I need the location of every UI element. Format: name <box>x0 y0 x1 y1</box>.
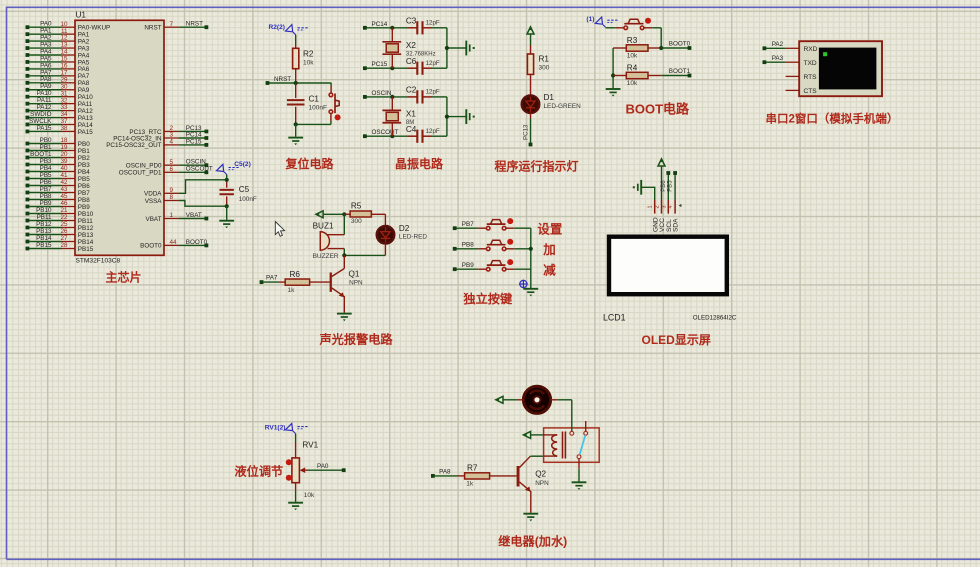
svg-text:26: 26 <box>60 228 68 235</box>
svg-text:PA14: PA14 <box>78 122 93 129</box>
svg-text:15: 15 <box>60 56 68 63</box>
label 继电器(加水) <box>498 534 567 549</box>
svg-text:1k: 1k <box>288 287 296 294</box>
svg-text:STM32F103C8: STM32F103C8 <box>76 258 121 265</box>
svg-text:PA7: PA7 <box>40 69 52 76</box>
svg-text:LED-RED: LED-RED <box>399 233 427 240</box>
svg-text:OSCIN_PD0: OSCIN_PD0 <box>126 163 162 170</box>
svg-text:32: 32 <box>60 97 68 104</box>
svg-text:PB15: PB15 <box>36 242 52 249</box>
wire reset bottom <box>294 122 331 126</box>
svg-text:PA11: PA11 <box>78 101 93 108</box>
svg-text:39: 39 <box>60 158 68 165</box>
svg-text:R6: R6 <box>290 270 301 279</box>
U1 pin 33 PA12 / wire net PA12 <box>26 104 94 115</box>
svg-text:LED-GREEN: LED-GREEN <box>544 103 582 110</box>
U1 pin 37 PA14 / wire net SWCLK <box>26 118 94 129</box>
wire right bus X1 <box>445 97 466 136</box>
svg-text:42: 42 <box>60 179 68 186</box>
svg-text:PA10: PA10 <box>37 90 52 97</box>
svg-text:PB0: PB0 <box>40 137 52 144</box>
label 程序运行指示灯 <box>495 159 579 174</box>
svg-text:BOOT0: BOOT0 <box>186 239 208 246</box>
svg-text:LCD1: LCD1 <box>603 313 626 323</box>
push button PB7 key <box>478 218 531 230</box>
svg-text:PB1: PB1 <box>40 144 52 151</box>
U1 pin 7 NRST / wire net NRST <box>144 21 208 32</box>
power symbol motor <box>496 396 517 403</box>
LED D2 LED-RED <box>377 224 428 244</box>
svg-text:R1: R1 <box>539 55 550 64</box>
svg-text:X1: X1 <box>406 109 416 118</box>
svg-text:NRST: NRST <box>144 25 161 32</box>
svg-text:3: 3 <box>661 205 667 208</box>
svg-text:R7: R7 <box>467 463 478 472</box>
svg-text:VBAT: VBAT <box>146 216 162 223</box>
svg-text:PA3: PA3 <box>772 55 784 62</box>
svg-text:串口2窗口（模拟手机端）: 串口2窗口（模拟手机端） <box>766 111 899 125</box>
wire net OSCOUT <box>363 129 408 138</box>
label 液位调节 <box>235 464 284 479</box>
svg-text:PC15: PC15 <box>372 61 388 68</box>
svg-text:RTS: RTS <box>804 74 818 81</box>
U1 pin 42 PB6 / wire net PB6 <box>26 179 91 190</box>
svg-text:5: 5 <box>170 159 174 166</box>
U1 pin 29 PA8 / wire net PA8 <box>26 76 90 87</box>
svg-text:38: 38 <box>60 125 68 132</box>
svg-text:4: 4 <box>668 205 674 208</box>
wire Q2 collector to relay coil <box>530 455 543 457</box>
svg-text:PA12: PA12 <box>37 104 52 111</box>
svg-text:PA1: PA1 <box>40 28 52 35</box>
U1 pin 6 OSCOUT_PD1 / wire net OSCOUT <box>119 166 213 177</box>
capacitor C6 12pF <box>406 57 447 75</box>
svg-text:PA0: PA0 <box>317 463 329 470</box>
svg-text:RXD: RXD <box>804 46 818 53</box>
svg-text:PA2: PA2 <box>772 41 784 48</box>
U1 pin 30 PA9 / wire net PA9 <box>26 83 90 94</box>
svg-text:32.768KHz: 32.768KHz <box>406 51 436 57</box>
wire net PC15 <box>363 61 408 70</box>
svg-text:4: 4 <box>170 139 174 146</box>
svg-text:PA9: PA9 <box>40 83 52 90</box>
svg-text:44: 44 <box>170 239 178 246</box>
svg-text:PB9: PB9 <box>40 200 52 207</box>
U1 pin 41 PB5 / wire net PB5 <box>26 172 91 183</box>
svg-text:SDA: SDA <box>673 218 680 232</box>
svg-text:31: 31 <box>60 90 68 97</box>
svg-text:PA11: PA11 <box>37 97 52 104</box>
label 串口2窗口（模拟手机端） <box>766 111 899 125</box>
label 设置 <box>537 222 563 237</box>
svg-text:BUZZER: BUZZER <box>313 253 339 260</box>
label 声光报警电路 <box>319 332 394 347</box>
svg-text:33: 33 <box>60 104 68 111</box>
wire net PC14 <box>363 21 408 30</box>
svg-text:12pF: 12pF <box>426 60 440 67</box>
svg-text:30: 30 <box>60 83 68 90</box>
svg-text:14: 14 <box>60 49 68 56</box>
svg-text:8M: 8M <box>406 120 414 126</box>
svg-text:Q1: Q1 <box>349 269 360 278</box>
svg-text:PA12: PA12 <box>78 108 93 115</box>
ground keys <box>523 289 538 297</box>
wire net PB9 <box>453 262 479 271</box>
svg-text:21: 21 <box>60 207 68 214</box>
U1 pin 3 PC14-OSC32_IN / wire net PC14 <box>113 131 208 142</box>
svg-text:X2: X2 <box>406 41 416 50</box>
svg-text:28: 28 <box>60 242 68 249</box>
svg-text:PA7: PA7 <box>78 73 90 80</box>
svg-text:12pF: 12pF <box>426 89 440 96</box>
svg-text:PA8: PA8 <box>78 80 90 87</box>
wire right bus X2 <box>445 28 466 68</box>
ground Q2 emitter <box>523 514 538 522</box>
svg-text:PA3: PA3 <box>40 41 52 48</box>
svg-text:PC15: PC15 <box>186 138 202 145</box>
svg-text:100nF: 100nF <box>239 196 257 203</box>
svg-text:37: 37 <box>60 118 68 125</box>
svg-text:VSSA: VSSA <box>145 198 163 205</box>
svg-text:17: 17 <box>60 69 68 76</box>
svg-text:25: 25 <box>60 221 68 228</box>
svg-text:11: 11 <box>61 28 68 35</box>
svg-text:减: 减 <box>543 263 556 278</box>
svg-text:300: 300 <box>539 65 550 72</box>
U1 pin 4 PC15-OSC32_OUT / wire net PC15 <box>106 138 208 149</box>
svg-text:CTS: CTS <box>804 88 818 95</box>
svg-text:复位电路: 复位电路 <box>285 156 335 171</box>
svg-text:PB6: PB6 <box>661 180 667 192</box>
push button PB8 key <box>478 239 531 251</box>
svg-text:PB4: PB4 <box>40 165 52 172</box>
capacitor C3 12pF <box>406 16 447 34</box>
svg-text:R2: R2 <box>303 49 314 58</box>
buzzer BUZ1 <box>313 214 345 260</box>
svg-text:PB15: PB15 <box>78 246 94 253</box>
svg-text:10k: 10k <box>627 53 638 60</box>
svg-text:PA3: PA3 <box>78 45 90 52</box>
voltage probe R2(2) <box>269 24 310 35</box>
capacitor C4 12pF <box>406 125 447 143</box>
svg-text:12pF: 12pF <box>426 19 440 26</box>
U1 pin 27 PB14 / wire net PB14 <box>26 235 94 246</box>
wire net PC13 below D1 <box>522 113 532 146</box>
svg-text:C5(2): C5(2) <box>234 161 251 168</box>
svg-text:PA0-WKUP: PA0-WKUP <box>78 25 110 32</box>
voltage probe RV1(2) <box>265 423 309 433</box>
svg-text:PA1: PA1 <box>78 31 90 38</box>
label BOOT电路 <box>626 102 691 117</box>
svg-text:43: 43 <box>60 186 68 193</box>
U1 pin 2 PC13_RTC / wire net PC13 <box>129 125 208 136</box>
U1 pin 12 PA2 / wire net PA2 <box>26 35 90 46</box>
svg-text:SWDIO: SWDIO <box>30 111 51 118</box>
svg-text:PA5: PA5 <box>40 55 52 62</box>
svg-text:PB3: PB3 <box>40 158 52 165</box>
svg-text:R2(2): R2(2) <box>269 24 286 31</box>
wire R3-R4 left bus <box>611 48 615 88</box>
svg-text:PB7: PB7 <box>40 186 52 193</box>
label 加 <box>542 242 556 257</box>
power symbol relay coil <box>523 431 543 438</box>
transistor Q1 NPN <box>330 255 363 312</box>
transistor Q2 NPN <box>517 456 549 513</box>
capacitor C5 100nF <box>220 178 257 209</box>
svg-text:独立按键: 独立按键 <box>462 291 513 306</box>
svg-text:BOOT0: BOOT0 <box>669 41 691 48</box>
U1 pin 39 PB3 / wire net PB3 <box>26 158 91 169</box>
svg-text:NPN: NPN <box>349 279 363 286</box>
U1 pin 18 PB0 / wire net PB0 <box>26 137 91 148</box>
svg-text:晶振电路: 晶振电路 <box>395 156 444 171</box>
svg-text:13: 13 <box>60 42 68 49</box>
svg-text:OLED显示屏: OLED显示屏 <box>642 333 711 347</box>
svg-text:D1: D1 <box>544 93 555 102</box>
svg-text:PB9: PB9 <box>78 204 90 211</box>
svg-text:声光报警电路: 声光报警电路 <box>319 332 394 347</box>
ground relay switch <box>572 469 587 490</box>
svg-text:Q2: Q2 <box>535 470 546 479</box>
svg-text:PA4: PA4 <box>78 52 90 59</box>
svg-text:100nF: 100nF <box>309 104 327 111</box>
svg-text:19: 19 <box>60 144 68 151</box>
svg-text:PB7: PB7 <box>462 221 474 228</box>
svg-text:OSCOUT: OSCOUT <box>186 166 213 173</box>
svg-text:PA7: PA7 <box>266 275 278 282</box>
U1 pin 5 OSCIN_PD0 / wire net OSCIN <box>126 159 209 170</box>
svg-text:12pF: 12pF <box>426 128 440 135</box>
wire R5 to D2 <box>384 214 386 226</box>
svg-text:R5: R5 <box>351 202 362 211</box>
svg-text:C4: C4 <box>406 125 417 134</box>
svg-text:8: 8 <box>170 194 174 201</box>
svg-text:12: 12 <box>60 35 68 42</box>
svg-text:OSCIN: OSCIN <box>186 159 206 166</box>
ground OLED GND <box>633 180 655 200</box>
power symbol buzzer <box>316 211 344 218</box>
svg-text:PC14: PC14 <box>372 21 388 28</box>
resistor R4 10k <box>613 64 661 88</box>
svg-text:C2: C2 <box>406 86 417 95</box>
svg-text:NRST: NRST <box>186 21 203 28</box>
svg-text:9: 9 <box>170 187 174 194</box>
wire net BOOT1 <box>661 68 691 77</box>
svg-text:PA4: PA4 <box>40 48 52 55</box>
svg-text:OSCOUT: OSCOUT <box>372 129 399 136</box>
svg-text:PB10: PB10 <box>36 207 52 214</box>
resistor R1 300 <box>527 45 549 95</box>
svg-text:7: 7 <box>170 21 174 28</box>
svg-text:BUZ1: BUZ1 <box>313 221 334 230</box>
svg-text:PA15: PA15 <box>37 125 52 132</box>
U1 pin 46 PB9 / wire net PB9 <box>26 200 91 211</box>
svg-text:PB3: PB3 <box>78 162 90 169</box>
wire motor to relay switch <box>557 400 572 431</box>
svg-text:RV1: RV1 <box>302 440 318 449</box>
svg-text:液位调节: 液位调节 <box>235 464 284 479</box>
capacitor C1 100nF <box>287 83 327 124</box>
svg-text:PB5: PB5 <box>668 180 674 192</box>
crystal X2 32.768KHz <box>382 28 435 68</box>
U1 pin 1 VBAT / wire net VBAT <box>146 212 209 223</box>
relay (coil + switch) <box>544 421 600 469</box>
svg-text:VBAT: VBAT <box>186 212 202 219</box>
power symbol above R1 <box>527 27 534 45</box>
svg-text:41: 41 <box>60 172 68 179</box>
terminal pin CTS <box>786 89 800 91</box>
virtual terminal 串口2 (component) <box>799 41 882 96</box>
ground X1 circuit <box>466 109 474 124</box>
svg-text:PB5: PB5 <box>40 172 52 179</box>
U1 pin 15 PA5 / wire net PA5 <box>26 55 90 66</box>
capacitor C2 12pF <box>406 86 447 104</box>
label OLED显示屏 <box>642 333 711 347</box>
svg-text:PB1: PB1 <box>78 148 90 155</box>
ground Q1 emitter <box>337 314 352 322</box>
svg-text:PA8: PA8 <box>439 469 451 476</box>
resistor R3 10k <box>613 36 661 60</box>
wire net PB8 <box>453 242 479 251</box>
U1 pin 31 PA10 / wire net PA10 <box>26 90 94 101</box>
svg-text:PA10: PA10 <box>78 94 93 101</box>
origin marker (blue) <box>519 280 528 289</box>
wire net PB6 to SCL <box>661 171 670 200</box>
svg-text:2: 2 <box>655 205 661 208</box>
svg-text:PB14: PB14 <box>78 239 94 246</box>
svg-text:10k: 10k <box>304 492 315 499</box>
svg-text:OSCIN: OSCIN <box>372 90 392 97</box>
U1 pin 38 PA15 / wire net PA15 <box>26 125 94 136</box>
svg-text:PB6: PB6 <box>78 183 90 190</box>
wire net BOOT0 <box>659 41 691 51</box>
svg-text:C3: C3 <box>406 16 417 25</box>
svg-text:C6: C6 <box>406 57 417 66</box>
resistor R2 10k <box>293 35 315 83</box>
svg-text:PA6: PA6 <box>78 66 90 73</box>
svg-text:PB10: PB10 <box>78 211 94 218</box>
svg-text:18: 18 <box>60 137 68 144</box>
svg-text:OLED12864I2C: OLED12864I2C <box>693 314 737 321</box>
wire net PB5 to SDA <box>668 171 677 200</box>
ground reset <box>288 124 303 145</box>
U1 pin 34 PA13 / wire net SWDIO <box>26 111 94 122</box>
svg-text:加: 加 <box>542 242 556 257</box>
svg-text:R3: R3 <box>627 36 638 45</box>
U1 pin 45 PB8 / wire net PB8 <box>26 193 91 204</box>
svg-text:PB8: PB8 <box>78 197 90 204</box>
svg-text:PA6: PA6 <box>40 62 52 69</box>
svg-text:主芯片: 主芯片 <box>106 270 142 285</box>
crystal X1 8M <box>382 97 416 136</box>
label 主芯片 <box>106 270 142 285</box>
svg-text:PB12: PB12 <box>36 221 52 228</box>
push button PB9 key <box>478 259 531 271</box>
svg-text:设置: 设置 <box>537 222 563 237</box>
U1 pin 20 PB2 / wire net BOOT1 <box>26 151 91 162</box>
svg-text:22: 22 <box>60 214 68 221</box>
U1 pin 11 PA1 / wire net PA1 <box>26 28 90 39</box>
svg-text:PA13: PA13 <box>78 115 93 122</box>
svg-text:RV1(2): RV1(2) <box>265 425 286 432</box>
svg-text:PC13: PC13 <box>522 124 529 140</box>
U1 pin 22 PB11 / wire net PB11 <box>26 214 94 225</box>
svg-text:程序运行指示灯: 程序运行指示灯 <box>495 159 579 174</box>
svg-text:300: 300 <box>351 218 362 225</box>
terminal pin RTS <box>786 75 800 77</box>
svg-text:1: 1 <box>648 205 654 208</box>
U1 pin 43 PB7 / wire net PB7 <box>26 186 91 197</box>
wire net PA8 / resistor R7 1k <box>431 463 517 487</box>
svg-text:6: 6 <box>170 166 174 173</box>
svg-text:10k: 10k <box>303 59 314 66</box>
svg-text:PB4: PB4 <box>78 169 90 176</box>
label 复位电路 <box>285 156 335 171</box>
U1 pin 26 PB13 / wire net PB13 <box>26 228 94 239</box>
ground X2 circuit <box>466 41 474 56</box>
U1 pin 17 PA7 / wire net PA7 <box>26 69 90 80</box>
ground BOOT <box>606 89 621 97</box>
svg-text:34: 34 <box>60 111 68 118</box>
wire net PB7 <box>453 221 479 230</box>
U1 pin 14 PA4 / wire net PA4 <box>26 48 90 59</box>
U1 pin 28 PB15 / wire net PB15 <box>26 242 94 253</box>
svg-text:OSCOUT_PD1: OSCOUT_PD1 <box>119 170 162 177</box>
microcontroller U1 STM32F103C8 body <box>75 11 164 265</box>
svg-text:29: 29 <box>60 76 68 83</box>
resistor R5 300 <box>342 202 385 225</box>
svg-text:27: 27 <box>60 235 68 242</box>
svg-text:PB0: PB0 <box>78 141 90 148</box>
U1 pin 9 VDDA wire to C5 <box>144 180 227 198</box>
svg-text:BOOT1: BOOT1 <box>30 151 52 158</box>
wire net PA3 to TXD <box>763 55 800 64</box>
voltage probe (1) <box>586 16 619 27</box>
OLED LCD1 pins GND VCC SCL SDA <box>648 200 682 232</box>
svg-text:1k: 1k <box>466 481 474 488</box>
U1 pin 19 PB1 / wire net PB1 <box>26 144 91 155</box>
svg-text:(1): (1) <box>586 16 594 23</box>
wire D2/BUZ1 to Q1 collector <box>342 244 385 258</box>
svg-text:SWCLK: SWCLK <box>29 118 52 125</box>
ground below C5 <box>219 206 234 228</box>
svg-text:PC15-OSC32_OUT: PC15-OSC32_OUT <box>106 142 161 149</box>
wire keys bus to ground <box>529 228 533 288</box>
ground RV1 <box>288 490 303 510</box>
svg-text:PB8: PB8 <box>40 193 52 200</box>
U1 pin 25 PB12 / wire net PB12 <box>26 221 94 232</box>
svg-text:46: 46 <box>60 200 68 207</box>
svg-text:PA15: PA15 <box>78 129 93 136</box>
svg-text:PB8: PB8 <box>462 242 474 249</box>
svg-text:PB2: PB2 <box>78 155 90 162</box>
svg-text:PB12: PB12 <box>78 225 94 232</box>
label 减 <box>543 263 556 278</box>
svg-text:PB6: PB6 <box>40 179 52 186</box>
svg-text:PB14: PB14 <box>36 235 52 242</box>
wire net PA7 / resistor R6 1k <box>260 270 330 294</box>
svg-text:BOOT1: BOOT1 <box>669 68 691 75</box>
svg-text:PA2: PA2 <box>78 38 90 45</box>
svg-text:45: 45 <box>60 193 68 200</box>
svg-text:20: 20 <box>60 151 68 158</box>
wire net PA0 from RV1 wiper <box>308 463 346 472</box>
svg-text:10: 10 <box>60 21 68 28</box>
svg-text:D2: D2 <box>399 224 410 233</box>
svg-text:PB13: PB13 <box>78 232 94 239</box>
LED D1 LED-GREEN <box>522 93 581 113</box>
svg-text:NRST: NRST <box>274 76 291 83</box>
